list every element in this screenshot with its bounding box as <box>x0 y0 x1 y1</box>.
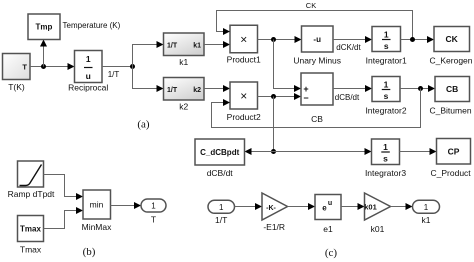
svg-text:k2: k2 <box>193 87 201 94</box>
svg-text:C_Product: C_Product <box>431 168 472 178</box>
svg-text:Tmax: Tmax <box>20 225 41 234</box>
subsystem block k1 <box>164 33 205 56</box>
svg-text:dCK/dt: dCK/dt <box>336 43 361 52</box>
arrowhead into gain -E1/R <box>255 203 262 210</box>
svg-text:k1: k1 <box>422 215 431 225</box>
junction node Integrator2 out <box>418 86 423 91</box>
block CB (C_Bitumen) <box>435 77 470 102</box>
block CK (C_Kerogen) <box>434 27 470 52</box>
svg-text:Tmp: Tmp <box>36 23 53 32</box>
arrowhead into k01 <box>358 203 365 210</box>
svg-text:s: s <box>384 41 389 51</box>
outport oval k1 <box>413 200 440 213</box>
wire Integrator3 to CP <box>400 151 432 153</box>
arrowhead into CK <box>427 36 434 43</box>
svg-text:min: min <box>90 200 104 210</box>
svg-text:1: 1 <box>424 203 429 212</box>
wire Ramp to MinMax <box>44 175 78 197</box>
wire branch up to k1 <box>133 45 159 67</box>
arrowhead into outport k1 <box>406 203 413 210</box>
arrowhead into Sum minus <box>294 93 301 100</box>
arrowhead into Reciprocal <box>68 63 75 70</box>
svg-text:Ramp dTpdt: Ramp dTpdt <box>8 189 55 199</box>
arrowhead into Tmp (up) <box>40 40 47 47</box>
wire to C_dCBpdt (left) <box>250 151 274 153</box>
svg-text:Temperature (K): Temperature (K) <box>63 21 121 30</box>
arrowhead into Integrator1 <box>365 36 372 43</box>
block Integrator1 <box>372 27 401 52</box>
block Ramp dTpdt <box>18 161 44 187</box>
svg-text:C_Bitumen: C_Bitumen <box>430 106 472 116</box>
svg-text:u: u <box>328 200 332 207</box>
block e1 (e^u) <box>315 195 341 220</box>
wire k2 to Product2 <box>204 88 225 90</box>
arrowhead into outport T <box>134 202 141 209</box>
arrowhead into Integrator3 <box>365 148 372 155</box>
arrowhead into Product2 in2 <box>223 99 230 106</box>
arrowhead into Product1 in2 <box>223 41 230 48</box>
svg-text:1/T: 1/T <box>215 215 227 225</box>
svg-text:-u: -u <box>313 35 321 44</box>
svg-text:T(K): T(K) <box>8 82 25 92</box>
subsystem block k2 <box>164 78 205 101</box>
CB feedback wire to Product2 in2 <box>212 89 421 128</box>
block C_dCBpdt <box>195 139 245 165</box>
arrowhead into Product2 in1 <box>223 85 230 92</box>
svg-text:(c): (c) <box>325 247 338 259</box>
svg-text:k1: k1 <box>179 57 188 67</box>
svg-text:dCB/dt: dCB/dt <box>335 93 360 102</box>
svg-text:Tmax: Tmax <box>20 245 42 255</box>
svg-text:T: T <box>151 215 156 225</box>
svg-text:k01: k01 <box>371 224 385 234</box>
wire gain to e1 <box>288 206 310 208</box>
arrowhead into Product1 in1 <box>223 28 230 35</box>
svg-text:(a): (a) <box>137 119 150 131</box>
arrowhead into CB block <box>428 85 435 92</box>
arrowhead into Unary Minus <box>295 36 302 43</box>
svg-text:C_dCBpdt: C_dCBpdt <box>200 148 239 157</box>
svg-text:s: s <box>384 91 389 101</box>
svg-text:s: s <box>383 154 388 164</box>
svg-text:Reciprocal: Reciprocal <box>68 83 108 93</box>
svg-text:MinMax: MinMax <box>82 222 113 232</box>
arrowhead into MinMax in2 <box>76 207 83 214</box>
wire Reciprocal out to branch <box>102 66 132 68</box>
block Product1 <box>230 25 258 53</box>
svg-text:1: 1 <box>384 80 389 90</box>
block Sum CB <box>301 73 333 105</box>
wire Integrator2 to CB <box>400 88 430 90</box>
svg-text:dCB/dt: dCB/dt <box>207 168 234 178</box>
junction node Product1 out <box>271 37 276 42</box>
source block T <box>3 54 31 80</box>
svg-text:k01: k01 <box>364 203 377 212</box>
wire k01 to outport k1 <box>391 206 408 208</box>
svg-text:CP: CP <box>448 147 460 157</box>
block Integrator3 <box>372 139 400 165</box>
svg-text:C_Kerogen: C_Kerogen <box>430 56 473 66</box>
junction node 1/T branch <box>130 64 135 69</box>
svg-text:(b): (b) <box>83 246 96 258</box>
gain k01 triangle <box>364 193 390 220</box>
arrowhead into MinMax in1 <box>76 193 83 200</box>
svg-text:Integrator2: Integrator2 <box>365 106 406 116</box>
svg-text:k1: k1 <box>193 43 201 50</box>
svg-text:-K-: -K- <box>266 205 276 212</box>
svg-text:Product1: Product1 <box>227 55 261 65</box>
wire branch down to k2 <box>133 67 159 89</box>
wire e1 to gain k01 <box>341 206 359 208</box>
svg-text:1: 1 <box>383 142 388 152</box>
svg-text:1: 1 <box>384 30 389 40</box>
arrowhead into Integrator2 <box>365 85 372 92</box>
svg-text:T: T <box>22 63 27 72</box>
arrowhead into CP <box>430 148 437 155</box>
wire Product2 out down to dCB row <box>273 97 275 152</box>
svg-text:×: × <box>240 89 247 103</box>
block Unary Minus <box>302 26 334 52</box>
junction node on T output <box>41 64 46 69</box>
wire Unary Minus to Integrator1 <box>333 39 367 41</box>
svg-text:Unary Minus: Unary Minus <box>293 56 341 66</box>
svg-text:e: e <box>322 204 327 213</box>
svg-text:1/T: 1/T <box>167 87 178 94</box>
junction node on dCB row <box>271 149 276 154</box>
arrowhead into C_dCBpdt (left-pointing) <box>245 148 252 155</box>
wire Product1 out to Unary Minus <box>258 39 297 41</box>
svg-text:CB: CB <box>311 114 323 124</box>
block MinMax <box>83 190 111 219</box>
svg-text:e1: e1 <box>323 224 333 234</box>
wire Sum to Integrator2 <box>333 88 367 90</box>
svg-text:1: 1 <box>219 203 224 212</box>
wire Product1 out down to Sum plus <box>274 40 296 89</box>
outport oval T <box>141 199 166 212</box>
svg-text:×: × <box>240 33 247 47</box>
block Reciprocal (1/u) <box>75 51 103 83</box>
svg-text:CB: CB <box>446 84 458 94</box>
svg-text:u: u <box>86 71 91 81</box>
svg-text:Integrator1: Integrator1 <box>366 56 407 66</box>
wire Integrator1 to CK <box>401 39 429 41</box>
arrowhead into e1 <box>308 203 315 210</box>
arrowhead into k2 <box>157 85 164 92</box>
arrowhead into k1 <box>157 41 164 48</box>
arrowhead into Sum plus <box>294 85 301 92</box>
junction node Product2 out <box>271 94 276 99</box>
wire T to Reciprocal <box>30 66 69 68</box>
svg-text:CK: CK <box>446 34 459 44</box>
block Tmp <box>28 14 60 40</box>
gain -E1/R triangle <box>262 193 288 220</box>
svg-text:1: 1 <box>151 202 156 211</box>
CK feedback wire (top) <box>217 11 413 40</box>
wire junction up to Tmp <box>43 44 45 67</box>
block Integrator2 <box>372 77 400 102</box>
svg-text:1/T: 1/T <box>108 70 120 79</box>
svg-text:-E1/R: -E1/R <box>263 222 285 232</box>
svg-text:1/T: 1/T <box>167 43 178 50</box>
svg-text:1: 1 <box>86 54 91 64</box>
wire to Integrator3 (right) <box>274 151 367 153</box>
block Tmax constant <box>18 216 44 242</box>
wire k1 to Product1 <box>204 44 225 46</box>
inport oval 1/T <box>208 200 235 213</box>
svg-text:Product2: Product2 <box>227 112 261 122</box>
block Product2 <box>230 82 258 109</box>
wire Tmax to MinMax <box>44 211 78 229</box>
wire Product2 out to Sum minus <box>258 96 296 98</box>
svg-text:−: − <box>303 93 308 103</box>
wire MinMax to outport T <box>111 205 136 207</box>
wire inport to gain -E1/R <box>235 206 257 208</box>
svg-text:Integrator3: Integrator3 <box>365 168 406 178</box>
block CP (C_Product) <box>437 139 471 165</box>
svg-text:k2: k2 <box>179 102 188 112</box>
junction node Integrator1 out <box>410 37 415 42</box>
svg-text:CK: CK <box>306 1 316 10</box>
